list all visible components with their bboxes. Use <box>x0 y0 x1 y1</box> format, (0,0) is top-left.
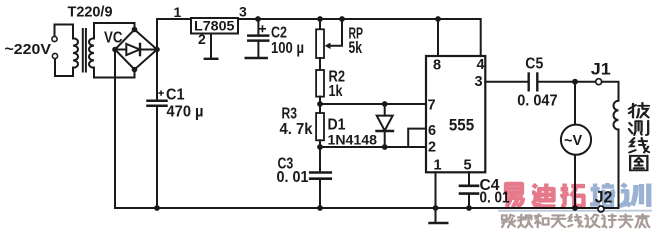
wm hanzi SHE2 <box>585 215 599 228</box>
voltmeter wire top <box>574 82 576 125</box>
bridge internal diode <box>115 49 157 51</box>
label coil under test (hanzi drawn) <box>629 103 649 118</box>
wire R3 to C3 <box>319 140 321 172</box>
wm hanzi SHE <box>502 215 515 227</box>
wm hanzi DI <box>532 184 555 207</box>
wire to 555 pin7 <box>320 103 426 105</box>
wire 555 pin6 bracket <box>408 129 426 147</box>
wire 555 pin8 <box>437 19 439 56</box>
node R2/R3 junction <box>317 101 323 107</box>
wm hanzi JI <box>602 214 616 227</box>
svg-text:3: 3 <box>239 4 247 20</box>
svg-text:470 µ: 470 µ <box>167 104 204 121</box>
svg-text:4. 7k: 4. 7k <box>280 121 313 138</box>
svg-text:4: 4 <box>477 57 485 73</box>
regulator U L7805 <box>191 18 238 34</box>
capacitor C4 <box>460 185 478 188</box>
resistor R2 <box>316 70 324 97</box>
capacitor C2 <box>257 19 259 35</box>
wire 555 pin5 to C4 <box>468 172 470 185</box>
wire bridge minus down to ground rail <box>115 50 619 209</box>
svg-text:D1: D1 <box>328 117 346 134</box>
svg-text:555: 555 <box>449 116 474 134</box>
ground rail dots <box>154 205 160 211</box>
wire primary top <box>55 25 74 39</box>
hanzi CE <box>629 121 648 135</box>
node voltmeter tap <box>572 79 578 85</box>
wire J1 to coil <box>602 82 619 101</box>
wire bridge plus down to C1 <box>156 50 158 101</box>
svg-text:0. 047: 0. 047 <box>517 92 557 109</box>
svg-text:1: 1 <box>174 4 182 20</box>
ground L7805 <box>205 58 218 60</box>
terminal bottom input <box>52 53 57 58</box>
wire +5V rail <box>238 19 481 56</box>
wm hanzi XIAN2 <box>568 215 582 227</box>
svg-text:~220V: ~220V <box>5 41 51 58</box>
node RP wiper tap <box>339 16 345 22</box>
capacitor C5 <box>528 74 530 91</box>
wm hanzi TUO <box>561 184 585 207</box>
svg-text:VC: VC <box>104 29 123 46</box>
svg-text:7: 7 <box>428 98 436 114</box>
hanzi XIAN <box>629 138 649 152</box>
watermark slogan SHE PIN HE TIAN XIAN SHE JI ZHUAN JIA <box>502 214 649 227</box>
transformer T220/9 secondary winding <box>89 38 94 68</box>
svg-text:100 µ: 100 µ <box>271 40 304 57</box>
wire primary bottom <box>55 59 73 76</box>
transformer T220/9 primary winding <box>73 38 78 68</box>
voltmeter wire bottom <box>574 155 576 208</box>
voltmeter V <box>561 125 591 155</box>
svg-text:1: 1 <box>434 158 442 174</box>
wm underline <box>498 210 652 212</box>
capacitor C1 <box>148 99 167 102</box>
svg-text:C5: C5 <box>525 56 543 73</box>
potentiometer RP <box>319 19 321 29</box>
svg-text:1k: 1k <box>329 83 343 100</box>
wm hanzi PIN <box>518 215 532 228</box>
svg-text:2: 2 <box>198 31 206 47</box>
wm hanzi ZHUAN <box>619 214 633 227</box>
svg-text:C2: C2 <box>271 24 287 41</box>
ground symbol main <box>435 208 437 223</box>
svg-text:~V: ~V <box>564 133 582 149</box>
svg-text:5: 5 <box>464 158 472 174</box>
svg-text:1N4148: 1N4148 <box>328 133 378 148</box>
hanzi QUAN <box>630 156 647 170</box>
wire to 555 pin2 <box>320 146 426 148</box>
svg-text:T220/9: T220/9 <box>68 4 113 20</box>
terminal top input <box>52 36 57 41</box>
svg-text:6: 6 <box>428 123 436 139</box>
transformer core <box>83 29 86 72</box>
wire bridge plus up to L7805 pin1 <box>157 19 191 50</box>
terminal J1 <box>596 79 602 85</box>
wm hanzi PEI <box>590 183 615 206</box>
capacitor C2 polarity plus <box>260 26 266 31</box>
wire 555 pin1 to ground rail <box>435 172 437 208</box>
wire 555 pin3 output <box>485 81 527 83</box>
node C2 tap <box>255 16 261 22</box>
diode D1 <box>382 101 388 107</box>
bridge rectifier VC <box>115 30 157 70</box>
watermark big YI DI TUO PEI XUN <box>498 183 652 211</box>
svg-text:3: 3 <box>475 74 483 90</box>
wm hanzi TIAN <box>552 215 566 227</box>
svg-text:5k: 5k <box>349 39 363 57</box>
ground C2 <box>246 57 267 60</box>
wire L7805 pin2 <box>210 34 212 59</box>
wm hanzi JIA <box>636 214 650 227</box>
wire secondary top to bridge <box>94 23 135 39</box>
wire RP to R2 <box>319 58 321 70</box>
capacitor C3 <box>310 171 331 174</box>
svg-text:R3: R3 <box>282 106 298 123</box>
hanzi BEI <box>629 103 649 118</box>
svg-text:2: 2 <box>428 140 436 156</box>
wm hanzi HE <box>535 214 549 227</box>
bridge node dots <box>112 27 160 73</box>
node RP top <box>317 16 323 22</box>
terminal J2 <box>598 206 604 212</box>
IC U1 555 <box>426 56 485 172</box>
svg-text:8: 8 <box>433 57 441 73</box>
svg-text:J1: J1 <box>591 61 611 79</box>
capacitor C1 polarity plus <box>159 91 163 95</box>
node R3/C3 junction <box>317 144 323 150</box>
wire R2 to R3 <box>319 97 321 113</box>
wire secondary bottom to bridge <box>94 68 135 78</box>
RP wiper arm <box>330 19 342 46</box>
svg-text:C1: C1 <box>166 87 185 104</box>
svg-text:0. 01: 0. 01 <box>277 169 309 186</box>
inductor L coil under test <box>614 101 619 130</box>
wm hanzi XUN <box>621 184 649 207</box>
resistor R3 <box>316 113 324 140</box>
wm hanzi YI <box>506 184 523 207</box>
